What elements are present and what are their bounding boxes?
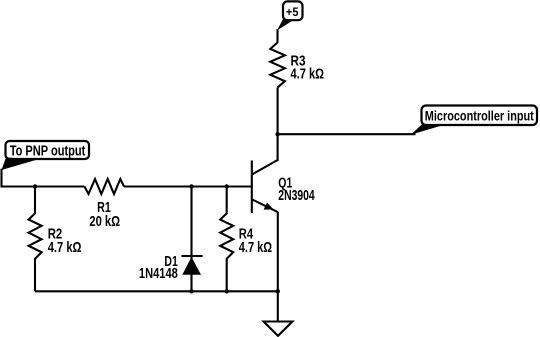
svg-text:2N3904: 2N3904: [278, 188, 314, 204]
svg-text:+5: +5: [286, 5, 299, 19]
wire to ground: [277, 291, 279, 321]
node collector junction: [275, 132, 279, 136]
svg-text:Microcontroller input: Microcontroller input: [425, 107, 534, 123]
label R4 4.7 kΩ: [239, 227, 273, 256]
transistor Q1: [252, 160, 278, 213]
power flag +5: [277, 1, 302, 30]
label R1 20 kΩ: [89, 200, 120, 230]
net flag Microcontroller input: [411, 106, 537, 135]
svg-text:1N4148: 1N4148: [139, 266, 178, 282]
resistor R4 with leads: [220, 187, 233, 292]
svg-text:4.7 kΩ: 4.7 kΩ: [239, 240, 273, 256]
ground: [264, 322, 293, 336]
wire bottom rail: [35, 290, 278, 292]
node emitter / ground junction: [276, 289, 280, 293]
diode D1: [181, 187, 202, 292]
wire R3 to collector: [277, 88, 279, 161]
net flag To PNP output: [2, 141, 90, 170]
wire flag to base rail: [2, 169, 85, 187]
wire collector node to output flag: [278, 133, 416, 135]
node D1 bottom: [189, 289, 193, 293]
label R3 4.7 kΩ: [291, 54, 325, 83]
resistor R1: [85, 179, 125, 194]
node R4 bottom: [225, 289, 229, 293]
wire emitter down: [277, 212, 279, 292]
label Q1 2N3904: [278, 175, 314, 204]
node R4 top: [225, 184, 229, 188]
svg-text:20 kΩ: 20 kΩ: [89, 214, 120, 230]
svg-text:To PNP output: To PNP output: [10, 144, 86, 160]
node D1 top: [189, 184, 193, 188]
svg-text:4.7 kΩ: 4.7 kΩ: [48, 240, 82, 256]
label R2 4.7 kΩ: [48, 227, 82, 256]
wire +5 to R3: [276, 29, 278, 43]
resistor R3: [270, 43, 285, 88]
label D1 1N4148: [139, 254, 178, 282]
node base rail / R2: [33, 184, 37, 188]
svg-text:4.7 kΩ: 4.7 kΩ: [291, 67, 325, 83]
wire R1 to base: [124, 185, 252, 187]
resistor R2 with leads: [29, 187, 42, 292]
